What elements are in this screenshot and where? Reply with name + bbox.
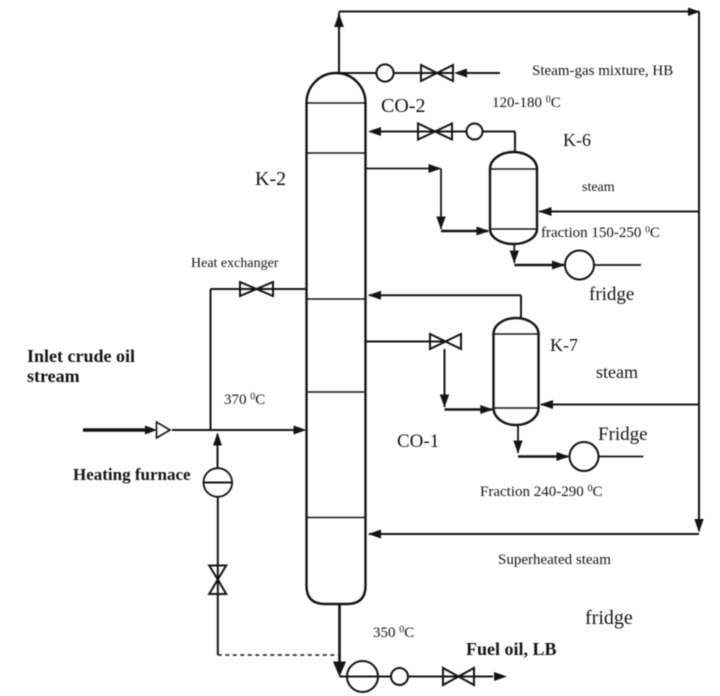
- svg-text:Heating furnace: Heating furnace: [73, 465, 191, 484]
- svg-text:steam: steam: [582, 180, 615, 195]
- svg-text:K-6: K-6: [563, 130, 591, 150]
- svg-text:Inlet crude oil: Inlet crude oil: [27, 346, 135, 366]
- svg-text:fridge: fridge: [585, 607, 633, 629]
- svg-text:K-2: K-2: [255, 168, 286, 190]
- svg-text:Steam-gas mixture, HB: Steam-gas mixture, HB: [532, 63, 673, 79]
- svg-text:Heat exchanger: Heat exchanger: [191, 256, 279, 271]
- svg-text:steam: steam: [596, 362, 638, 382]
- svg-text:Fraction 240-290 0C: Fraction 240-290 0C: [480, 484, 603, 501]
- svg-text:Superheated steam: Superheated steam: [498, 552, 611, 568]
- svg-text:stream: stream: [27, 366, 80, 386]
- svg-text:Fridge: Fridge: [598, 424, 648, 445]
- svg-text:CO-2: CO-2: [381, 95, 425, 117]
- svg-text:350 0C: 350 0C: [373, 625, 414, 642]
- svg-text:120-180 0C: 120-180 0C: [492, 95, 561, 112]
- svg-text:Fuel oil, LB: Fuel oil, LB: [466, 639, 557, 659]
- svg-text:370 0C: 370 0C: [224, 392, 265, 409]
- svg-text:fraction 150-250 0C: fraction 150-250 0C: [541, 225, 660, 241]
- svg-text:CO-1: CO-1: [397, 431, 439, 452]
- svg-text:fridge: fridge: [589, 284, 634, 305]
- svg-text:K-7: K-7: [550, 335, 578, 355]
